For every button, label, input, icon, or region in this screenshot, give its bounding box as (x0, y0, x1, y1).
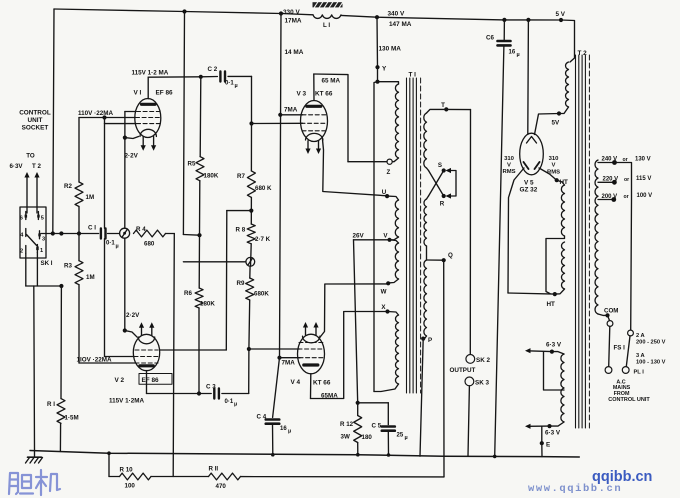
label C1 0.1 (88, 225, 119, 250)
wire R11 to Q line (241, 476, 445, 478)
svg-text:2·2V: 2·2V (125, 153, 139, 160)
wire C4 to bus (271, 424, 275, 457)
tube V2 anode bar (140, 364, 154, 367)
svg-text:130 MA: 130 MA (379, 46, 402, 53)
wire rail end to 5V winding (561, 20, 575, 62)
svg-text:1M: 1M (86, 194, 95, 201)
tube V3 grid dashes (301, 115, 327, 131)
wire V2 anode down and right (147, 371, 212, 396)
svg-text:EF 86: EF 86 (142, 377, 159, 384)
svg-text:147 MA: 147 MA (389, 21, 412, 28)
inductor T1 cathode winding lower (395, 243, 398, 279)
tube V3 KT66 envelope (301, 101, 328, 142)
label 115V 1.2MA top (132, 69, 169, 76)
svg-text:C 5: C 5 (372, 423, 382, 430)
tube V1 cathode dome (140, 129, 156, 136)
socket SK1 (20, 207, 46, 258)
svg-text:310: 310 (504, 156, 515, 162)
svg-text:6: 6 (20, 215, 23, 221)
svg-text:R7: R7 (237, 173, 245, 180)
node X (381, 304, 389, 314)
svg-text:CONTROL: CONTROL (19, 110, 51, 117)
label TO 6-3V T2 (9, 153, 41, 171)
resistor R10 (120, 473, 152, 480)
node P (421, 337, 432, 345)
svg-text:C 2: C 2 (208, 66, 218, 73)
wire V5 filament right leg to 5V (535, 111, 562, 134)
wire screen feed 14MA line (277, 14, 282, 360)
tube V3 heater legs (305, 141, 321, 154)
label R7 680K (237, 173, 272, 192)
wire V5 right anode lead (539, 168, 557, 180)
label HT bottom (547, 301, 556, 308)
wire X line (345, 311, 388, 313)
wire R8 to circle (250, 244, 252, 258)
label Z (387, 169, 391, 176)
wire T to SK2 drop (446, 109, 470, 354)
wire V5 left anode lead (508, 168, 524, 293)
svg-text:U: U (382, 189, 387, 196)
label 240V or 130V (602, 156, 651, 163)
wire C6 top (503, 20, 505, 41)
tube V5 filament (527, 137, 537, 144)
label C3 0.1 (206, 383, 237, 407)
svg-text:T 2: T 2 (32, 163, 41, 170)
svg-text:R2: R2 (64, 183, 72, 190)
wire HT winding top lead (557, 180, 565, 185)
inductor T1 primary anode winding upper (395, 84, 398, 158)
svg-text:or: or (623, 157, 628, 163)
wire R4 right to feedback node (166, 234, 175, 477)
resistor R5 (196, 157, 204, 181)
label R4 680 (136, 226, 155, 248)
wire 240V tap to fuse line (615, 163, 632, 331)
svg-text:R9: R9 (237, 280, 245, 287)
watermark danji blue text (9, 470, 60, 495)
resistor R1 (57, 399, 65, 424)
label AC MAINS FROM CONTROL UNIT (608, 379, 650, 403)
svg-text:HT: HT (547, 301, 556, 308)
node V (383, 233, 391, 242)
fuse holder right (626, 330, 633, 366)
wire V2 cathode kink to circle (123, 238, 137, 337)
wire 6.3V top lead and arrow (525, 348, 564, 354)
wire 26V cathode line (354, 240, 360, 405)
capacitor C3 (214, 389, 219, 399)
svg-text:1M: 1M (86, 274, 95, 281)
label 110V .22MA top (78, 110, 113, 117)
svg-text:P: P (428, 337, 432, 344)
svg-text:RMS: RMS (547, 170, 560, 176)
resistor R9 (246, 278, 254, 300)
label COM (604, 308, 618, 315)
wire V4 g2 feed (280, 357, 301, 359)
svg-text:R3: R3 (64, 263, 72, 270)
svg-text:µ: µ (116, 244, 119, 250)
svg-text:or: or (624, 177, 629, 183)
label C4 16u (257, 413, 292, 434)
svg-text:0·1: 0·1 (225, 399, 234, 405)
label 115V 1.2MA bottom (109, 397, 144, 404)
label R11 470 (209, 466, 227, 490)
svg-text:S: S (438, 162, 442, 169)
tube V4 grid dashes (298, 343, 324, 358)
svg-text:6·3 V: 6·3 V (546, 342, 562, 349)
svg-text:R II: R II (209, 466, 219, 473)
svg-text:R 4: R 4 (136, 226, 146, 233)
capacitor C6 (498, 41, 511, 45)
node Z terminal (387, 159, 392, 164)
tube V4 KT66 envelope (298, 334, 325, 374)
label R8 2.7K (236, 227, 271, 244)
tube V2 EF86 envelope (133, 334, 159, 370)
wire V1 g1 bottom dash feed (105, 123, 137, 125)
wire crossover links (427, 168, 444, 199)
svg-text:5 V: 5 V (556, 11, 566, 18)
svg-text:or: or (624, 194, 629, 200)
tube V4 heater legs (303, 322, 319, 336)
label 200V or 100V (602, 193, 653, 200)
label 310V RMS left (502, 156, 515, 175)
wire secondary bottom to P (423, 336, 426, 339)
svg-text:T I: T I (409, 72, 417, 79)
wire HT long vertical to lower primary (374, 82, 378, 392)
inductor T2 primary winding (595, 160, 598, 314)
label OUTPUT (450, 367, 476, 374)
tube V2 heater legs (139, 322, 155, 335)
wire R9 top (249, 266, 251, 278)
svg-text:GZ 32: GZ 32 (520, 186, 538, 193)
wire R2 column (78, 118, 80, 364)
svg-text:COM: COM (604, 308, 618, 315)
label 65MA V4 (321, 392, 338, 399)
inductor T2 HT winding upper (561, 185, 564, 236)
wire V 26V tap (354, 239, 390, 241)
svg-text:Z: Z (387, 169, 391, 176)
svg-text:16: 16 (509, 50, 516, 56)
label R2 1M (64, 183, 94, 201)
wire V1 g3 and cathode to circle (123, 112, 139, 229)
wire T to secondary (427, 109, 447, 113)
plug PL1 pin right (622, 367, 629, 374)
resistor R2 (75, 182, 83, 207)
wire to node Z (392, 158, 398, 162)
label SK2 (476, 357, 490, 364)
wire R7 top (250, 124, 252, 171)
tube V1 heater legs (141, 137, 157, 151)
svg-text:470: 470 (216, 483, 227, 490)
svg-text:V 4: V 4 (291, 379, 301, 386)
resistor R6 (195, 288, 203, 308)
wire C5 to bus (387, 431, 391, 457)
tube V5 GZ32 envelope (520, 133, 544, 175)
tube V1 EF86 envelope (135, 99, 161, 138)
svg-text:200 V: 200 V (602, 194, 618, 200)
svg-text:25: 25 (397, 433, 404, 439)
svg-text:SK 3: SK 3 (475, 380, 489, 387)
svg-text:2: 2 (20, 249, 23, 255)
wire lower primary bottom loop (374, 384, 399, 392)
inductor T2 HT winding lower (561, 242, 564, 289)
fuse FS1 (607, 315, 613, 366)
wire Y feed from rail (375, 17, 379, 84)
svg-text:26V: 26V (353, 233, 365, 240)
wire screen line to C4 (273, 358, 280, 418)
svg-text:3: 3 (42, 237, 45, 243)
wire circle tap to anode feed line (183, 261, 246, 263)
svg-text:100: 100 (125, 483, 136, 490)
svg-text:130 V: 130 V (635, 157, 651, 163)
wire winding to V (390, 237, 399, 240)
label SK1 pin numbers (20, 215, 45, 254)
wire V2 g1 middle dash feed (105, 356, 135, 358)
svg-text:R6: R6 (184, 290, 192, 297)
label 6.3V top (546, 342, 562, 349)
label 5V top (556, 11, 566, 18)
svg-text:R 8: R 8 (236, 227, 246, 234)
svg-text:R 10: R 10 (120, 467, 134, 474)
label R5 180K (188, 161, 219, 180)
wire HT CT line (508, 293, 555, 294)
svg-text:2 A: 2 A (636, 333, 645, 339)
svg-text:2·2V: 2·2V (126, 312, 140, 319)
wire V4 cathode to W (319, 284, 388, 339)
svg-text:SK 2: SK 2 (476, 357, 490, 364)
wire secondary to Q tap (427, 246, 444, 260)
wire SK3 to bus (468, 386, 469, 456)
svg-text:C6: C6 (486, 35, 494, 42)
wire V3 anode to Z drop (314, 74, 348, 162)
svg-text:TO: TO (26, 153, 35, 160)
svg-text:www.qqibb.cn: www.qqibb.cn (528, 483, 622, 495)
svg-text:R5: R5 (188, 161, 196, 168)
wire V into winding (390, 240, 399, 243)
svg-text:680K: 680K (254, 291, 269, 298)
wire R12 C5 top link (358, 403, 389, 425)
label Y (382, 66, 387, 73)
wire HT winding bottom (553, 289, 565, 296)
label FS1 (614, 345, 626, 352)
label R6 180K (184, 290, 215, 308)
socket SK3 (465, 377, 474, 386)
svg-text:E: E (546, 442, 550, 449)
label 7MA V3 (284, 107, 298, 114)
label 65MA V3 (322, 78, 341, 85)
svg-text:R: R (440, 201, 445, 208)
tube V4 anode bar (304, 363, 318, 366)
svg-text:L I: L I (323, 22, 330, 29)
wire primary tap 200V (598, 197, 616, 202)
tube V3 anode bar (307, 105, 321, 108)
svg-text:R 12: R 12 (340, 421, 354, 428)
wire input line SK1 pin3 to C1 (41, 231, 99, 235)
capacitor C4 (266, 420, 280, 424)
label 7MA V4 (282, 360, 296, 367)
label 220V or 115V (603, 176, 652, 183)
svg-text:1·5M: 1·5M (65, 415, 79, 422)
svg-text:V 2: V 2 (115, 377, 125, 384)
tube V2 grid dashes (134, 350, 159, 363)
label R9 680K (237, 280, 270, 298)
wire R7 R8 junction to V2 grid (160, 197, 254, 350)
tube V4 cathode dome (303, 336, 320, 343)
svg-text:3 A: 3 A (636, 353, 645, 359)
wire R6 column (198, 235, 201, 393)
svg-text:16: 16 (280, 426, 287, 432)
svg-text:OUTPUT: OUTPUT (450, 367, 476, 374)
choke L1 (313, 2, 344, 19)
svg-text:14 MA: 14 MA (285, 49, 304, 56)
svg-text:340 V: 340 V (388, 11, 405, 18)
plug PL1 pin left (605, 367, 612, 374)
capacitor C1 (101, 229, 106, 239)
wire left rail drop to input line (53, 9, 54, 234)
label V3 KT66 (297, 91, 333, 98)
svg-text:SK I: SK I (40, 260, 52, 267)
wire V3 g2 feed (280, 114, 302, 116)
label R3 1M (64, 263, 95, 282)
wire SK1 heater out arrows (24, 172, 39, 213)
node S (438, 162, 446, 173)
wire SK1 pin1 pin2 down to junction (26, 253, 64, 289)
wire primary bottom to COM (598, 313, 610, 317)
svg-text:Q: Q (448, 252, 453, 259)
node cathode junction circle (120, 228, 130, 238)
label 110V .22MA bottom (77, 356, 112, 363)
wire C2 to V3 grid (228, 76, 254, 125)
wire R1 column (60, 286, 61, 452)
wire 5V winding bottom (559, 107, 569, 114)
wire primary tap 240V (598, 160, 617, 165)
label T2 (578, 50, 588, 57)
wire HT winding centre tap (546, 236, 565, 294)
svg-text:µ: µ (235, 83, 238, 89)
wire R9 bottom (248, 300, 251, 349)
wire Y to primary top (378, 82, 399, 84)
svg-text:7MA: 7MA (284, 107, 298, 114)
wire Q down to feedback line (443, 260, 445, 477)
resistor R12 (354, 416, 362, 443)
svg-text:V: V (507, 163, 511, 169)
node W (381, 281, 391, 295)
label V1 EF86 (134, 90, 173, 97)
wire Z to V3 anode line (348, 161, 387, 163)
wire bus drop to R10 (107, 451, 111, 476)
label 130 MA (379, 46, 402, 53)
tube V1 anode bar (142, 103, 156, 106)
wire C1 to cathode circle (108, 233, 120, 235)
label SK1 (40, 260, 52, 267)
svg-text:CONTROL UNIT: CONTROL UNIT (608, 397, 650, 403)
svg-text:KT 66: KT 66 (313, 380, 331, 387)
wire X into winding (388, 312, 399, 316)
svg-text:115V 1·2MA: 115V 1·2MA (109, 397, 144, 404)
wire tap selector link (613, 163, 616, 200)
svg-text:330 V: 330 V (283, 9, 300, 16)
capacitor C5 (382, 427, 395, 431)
node HT top (555, 178, 559, 182)
node R (440, 194, 446, 208)
inductor T2 6.3V winding (561, 354, 564, 422)
svg-text:100 V: 100 V (637, 193, 653, 199)
inductor T1 secondary winding 2 (424, 199, 427, 246)
svg-text:180K: 180K (204, 173, 219, 180)
label C2 0.1 (208, 66, 238, 89)
svg-text:180: 180 (362, 434, 373, 441)
label V2 EF86 boxed (115, 374, 173, 385)
svg-text:UNIT: UNIT (28, 117, 43, 124)
svg-text:110V ·22MA: 110V ·22MA (78, 110, 113, 117)
wire feedback node to R11 (151, 476, 209, 478)
svg-text:EF 86: EF 86 (156, 90, 173, 97)
svg-text:µ: µ (405, 435, 408, 441)
svg-text:2·7 K: 2·7 K (255, 236, 271, 243)
svg-text:5V: 5V (552, 120, 561, 127)
svg-text:R I: R I (47, 401, 55, 408)
label 330V 17MA (283, 9, 302, 25)
wire V5 filament left leg to rail (527, 20, 530, 134)
svg-text:100 - 130 V: 100 - 130 V (636, 359, 666, 365)
label SK3 (475, 380, 489, 387)
node T (441, 102, 448, 112)
wire C6 to bus (493, 45, 504, 458)
label PL1 (634, 370, 645, 376)
label C6 16u (486, 35, 520, 59)
label 2.2V V2 (126, 312, 140, 319)
wire winding to W (389, 279, 399, 283)
resistor R7 (247, 171, 255, 198)
svg-text:0·1: 0·1 (106, 241, 115, 247)
socket SK2 (466, 355, 475, 364)
svg-text:C 3: C 3 (206, 383, 216, 390)
wire V4 g1 line (249, 348, 300, 350)
label 3A 100-130V (636, 353, 666, 365)
resistor R11 (209, 473, 241, 480)
svg-text:115 V: 115 V (636, 176, 651, 182)
label R1 1.5M (47, 401, 79, 422)
inductor T2 5V winding (566, 62, 569, 107)
svg-text:V 5: V 5 (524, 179, 534, 186)
transformer T2 core (576, 55, 590, 428)
svg-text:V 3: V 3 (297, 91, 307, 98)
inductor T1 primary anode winding lower (396, 315, 399, 384)
svg-text:PL I: PL I (634, 370, 645, 376)
wire HT top rail left section 330V (54, 9, 313, 16)
label 26V (353, 233, 365, 240)
svg-text:6·3 V: 6·3 V (545, 430, 561, 437)
label L1 (323, 22, 330, 29)
ground chassis symbol (26, 451, 43, 463)
tube V1 grid dashes (136, 112, 162, 124)
label V5 GZ32 (520, 179, 538, 193)
label T1 (409, 72, 417, 79)
resistor R3 (75, 261, 83, 285)
svg-text:V: V (552, 163, 556, 169)
label 340V 147MA (388, 11, 412, 28)
wire P to ground bus (420, 339, 423, 457)
node Q (442, 252, 453, 262)
svg-text:65 MA: 65 MA (322, 78, 341, 85)
wire R12 leads (356, 403, 360, 457)
svg-text:220 V: 220 V (603, 177, 619, 183)
wire primary tap 220V (598, 180, 617, 185)
wire V1 screen g2 line 110V (79, 115, 136, 119)
inductor T1 secondary winding 3 (424, 260, 427, 336)
svg-text:µ: µ (234, 402, 237, 408)
capacitor C2 (220, 72, 225, 82)
svg-text:SOCKET: SOCKET (22, 125, 49, 132)
svg-text:0·1: 0·1 (225, 81, 234, 87)
